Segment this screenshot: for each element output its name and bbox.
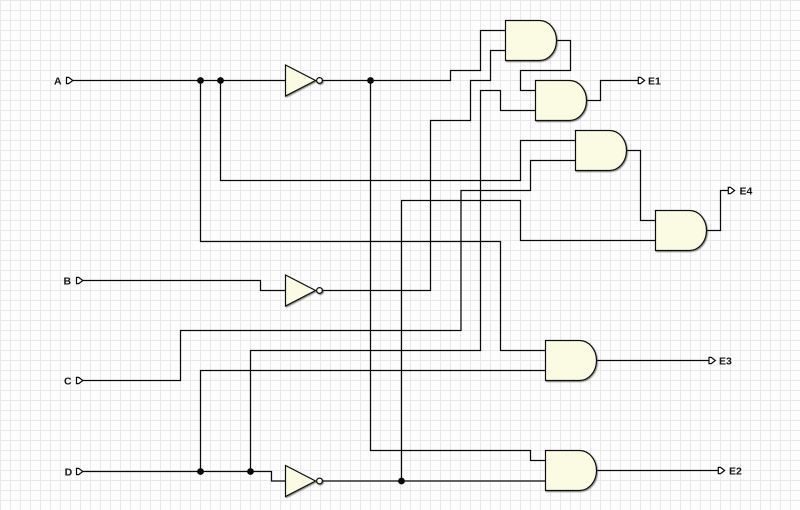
svg-text:A: A — [54, 76, 62, 88]
svg-text:B: B — [64, 276, 72, 288]
svg-text:E2: E2 — [729, 466, 742, 478]
svg-text:E3: E3 — [719, 356, 732, 368]
svg-text:D: D — [65, 466, 73, 478]
svg-text:E1: E1 — [648, 76, 661, 88]
svg-text:E4: E4 — [740, 186, 753, 198]
svg-text:C: C — [64, 376, 72, 388]
